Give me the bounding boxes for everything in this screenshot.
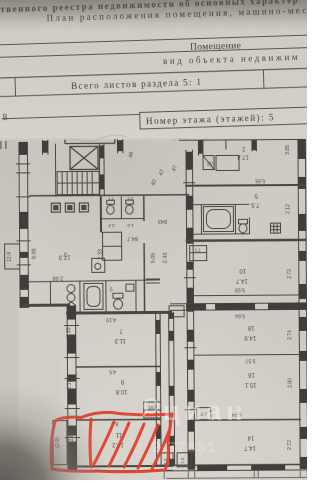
lower-left block bottom wall [67,465,173,468]
thick double wall y304-311 [169,303,307,317]
stove burners [67,285,75,293]
bathtub room5 [203,206,233,231]
wall room18/16 [193,353,300,356]
red marker outline [51,412,172,471]
red hatch 4 [138,425,158,468]
thin wall y296 [193,294,300,297]
row: Номер этажа (этажей): 5 [2,114,140,118]
stairs [57,171,99,194]
red hatch 3 [124,424,144,467]
shaft right wall [99,143,104,196]
rule 2 [0,47,315,57]
closet 2.7 [197,408,211,420]
left outer wall (upper block) [16,142,31,308]
bottom-left shadow [0,382,160,480]
closet 2.1 [190,246,207,261]
appliance squares [51,203,88,212]
elevator core left wall [54,144,56,197]
faint pencil scribble [64,135,126,142]
top-left cut stubs [0,141,2,149]
right block top edge [179,139,298,156]
sink [126,284,134,291]
right block: right outer wall [298,139,308,469]
wall stub top [42,140,48,155]
lower-left block: left outer wall [64,304,80,470]
red hatch 1 [94,422,114,464]
floor plan [1,138,308,480]
left balcony [5,244,20,269]
red unit outline [51,412,172,471]
closets middle [92,232,122,272]
wall stub x118 [117,139,123,153]
balcony room11 [53,421,67,465]
room5 bottom wall [186,239,307,242]
rule 1 [0,35,314,45]
wall room16/14 [194,418,301,421]
room5 bath block [193,204,280,235]
kitchen-bath block [28,280,160,312]
watermark icon [143,400,158,417]
lower-left block: right wall [156,312,162,466]
red hatch 5 [152,431,169,469]
cut-off next row below [164,470,308,479]
room2 bottom wall [185,184,306,187]
red inner divider [90,419,91,467]
red hatch 2 [109,423,129,466]
wc block top-center walls [100,196,144,232]
watermark [143,396,248,456]
elevator shaft [65,139,115,169]
table row: Всего листов раздела 5: 1 [0,68,315,78]
corridor wall x144 [144,243,160,312]
bottom double wall right [156,464,308,471]
closet 10.4 [144,402,161,418]
toilet 3 [113,293,123,298]
corridor top wall [29,195,189,196]
upper block bottom walls [22,304,70,307]
small cells bottom [161,453,191,467]
toilet 2 [125,196,133,215]
room7/9 divider [75,365,160,368]
balcony boxes room2 [203,155,239,170]
header (tilted scan) [0,0,317,147]
middle strip walls [169,312,175,466]
room9/11 divider [76,418,161,421]
toilet room5 [238,219,247,224]
toilet 1 [106,196,114,215]
bathtub [84,283,103,309]
vent grid [270,223,280,233]
right block: main left wall [183,150,197,470]
